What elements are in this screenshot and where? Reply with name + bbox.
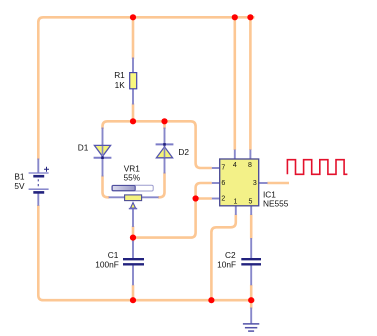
component leads (blue): [38, 58, 267, 324]
wire: left rail + top rail (battery loop): [38, 17, 289, 308]
lead: IC1 pin2 stub: [212, 198, 220, 200]
lead: D1 through: [102, 128, 104, 177]
waveform output trace: [287, 160, 347, 175]
lead: IC1 pin5 stub: [250, 206, 252, 216]
lead: VR1 track left: [109, 196, 125, 198]
ground: [243, 324, 259, 331]
svg-text:1K: 1K: [115, 80, 126, 90]
svg-text:5V: 5V: [14, 181, 25, 191]
VR1 progress bar fill 55%: [112, 186, 135, 191]
wire: D1 bottom to VR1 left: [103, 176, 110, 198]
wire: D2 stub below rail: [163, 121, 166, 129]
wire: R1 top vertical: [132, 17, 135, 59]
wire: C1 bottom stub: [132, 285, 135, 300]
wire: pin2 horizontal: [196, 197, 212, 200]
VR1 slider box: [125, 195, 142, 201]
lead: C1 top: [132, 241, 134, 259]
battery B1: [29, 167, 49, 193]
node: D2/diode rail: [161, 118, 167, 124]
VR1 progress bar outline: [112, 185, 153, 191]
node: pins 2-6 junction: [193, 195, 199, 201]
svg-text:2: 2: [221, 195, 225, 202]
svg-text:NE555: NE555: [263, 199, 289, 209]
wire: pin5 down to C2: [250, 215, 253, 239]
svg-text:8: 8: [248, 162, 252, 169]
svg-text:B1: B1: [14, 171, 25, 181]
wire: VR1 wiper down to node: [132, 226, 135, 238]
wire: pin1 down to bottom rail: [211, 215, 235, 301]
lead: VR1 wiper: [132, 208, 134, 227]
node: R1/diode rail: [130, 118, 136, 124]
wire: ground stub below bottom rail: [250, 300, 253, 308]
capacitor C1: [123, 259, 144, 264]
lead: IC1 pin8 stub: [249, 150, 251, 160]
lead: C1 bottom: [132, 265, 134, 285]
svg-text:1: 1: [233, 198, 237, 205]
wire: pin8 vertical from top rail: [249, 17, 252, 150]
lead: B1 bottom: [37, 192, 39, 206]
svg-text:55%: 55%: [123, 172, 140, 182]
node: pin8 wire/top rail: [247, 14, 253, 20]
node: pin1 wire/bottom rail: [208, 297, 214, 303]
lead: IC1 pin6 stub: [212, 182, 220, 184]
IC U1 NE555 body: [220, 159, 259, 206]
lead: C2 top: [250, 238, 252, 259]
node: pin4 wire/top rail: [232, 14, 238, 20]
lead: C2 bottom: [250, 265, 252, 285]
node: wiper/C1 junction: [130, 235, 136, 241]
wire: D2 bottom to VR1 right: [158, 173, 165, 198]
B1 plus thick bar: [33, 175, 44, 178]
svg-text:D1: D1: [78, 142, 89, 152]
wire: node to pins 2/6 riser: [133, 199, 196, 238]
lead: VR1 track right: [142, 196, 159, 198]
lead: R1 top: [132, 58, 134, 73]
wire: pin4 vertical from top rail: [234, 17, 237, 150]
wire: C2 bottom stub: [250, 285, 253, 300]
resistor R1: [130, 73, 137, 89]
lead: IC1 pin4 stub: [234, 150, 236, 160]
svg-text:100nF: 100nF: [95, 260, 119, 270]
svg-text:R1: R1: [114, 70, 125, 80]
B1 plus sign: [44, 167, 49, 172]
B1 second long line: [29, 188, 49, 190]
potentiometer VR1: [112, 185, 153, 208]
capacitor C2: [241, 259, 261, 264]
svg-text:6: 6: [221, 180, 225, 187]
B1 dashed middle: [37, 179, 39, 187]
svg-text:10nF: 10nF: [217, 260, 236, 270]
node: R1/top rail: [130, 14, 136, 20]
B1 plus terminal long line: [29, 172, 49, 174]
lead: R1 bottom: [132, 89, 134, 105]
wire: diode rail with corners down to D1 and pin7 run: [103, 121, 212, 168]
diode D2 (cathode up): [156, 143, 174, 158]
wire: R1 bottom vertical: [132, 104, 135, 122]
lead: IC1 pin7 stub: [212, 167, 220, 169]
svg-text:5: 5: [248, 198, 252, 205]
lead: B1 top: [37, 159, 39, 174]
lead: ground: [250, 308, 252, 324]
wire: pin6 to riser: [196, 183, 212, 199]
diode D1 (cathode down): [94, 145, 112, 159]
junction node dots: [130, 14, 254, 303]
wire: left rail bottom + bottom rail: [38, 205, 254, 300]
lead: IC1 pin1 stub: [235, 206, 237, 216]
wire: pin3 output stub: [267, 182, 289, 185]
lead: D2 through: [164, 128, 166, 174]
VR1 wiper arrow: [131, 203, 136, 208]
node: C1/bottom rail: [130, 297, 136, 303]
lead: IC1 pin3 stub: [259, 182, 268, 184]
svg-text:3: 3: [253, 180, 257, 187]
node: ground/bottom rail: [248, 297, 254, 303]
svg-text:4: 4: [233, 162, 237, 169]
svg-text:7: 7: [221, 165, 225, 172]
wire: C1 top stub: [132, 238, 135, 242]
svg-text:D2: D2: [178, 147, 189, 157]
B1 second thick bar: [33, 191, 44, 194]
